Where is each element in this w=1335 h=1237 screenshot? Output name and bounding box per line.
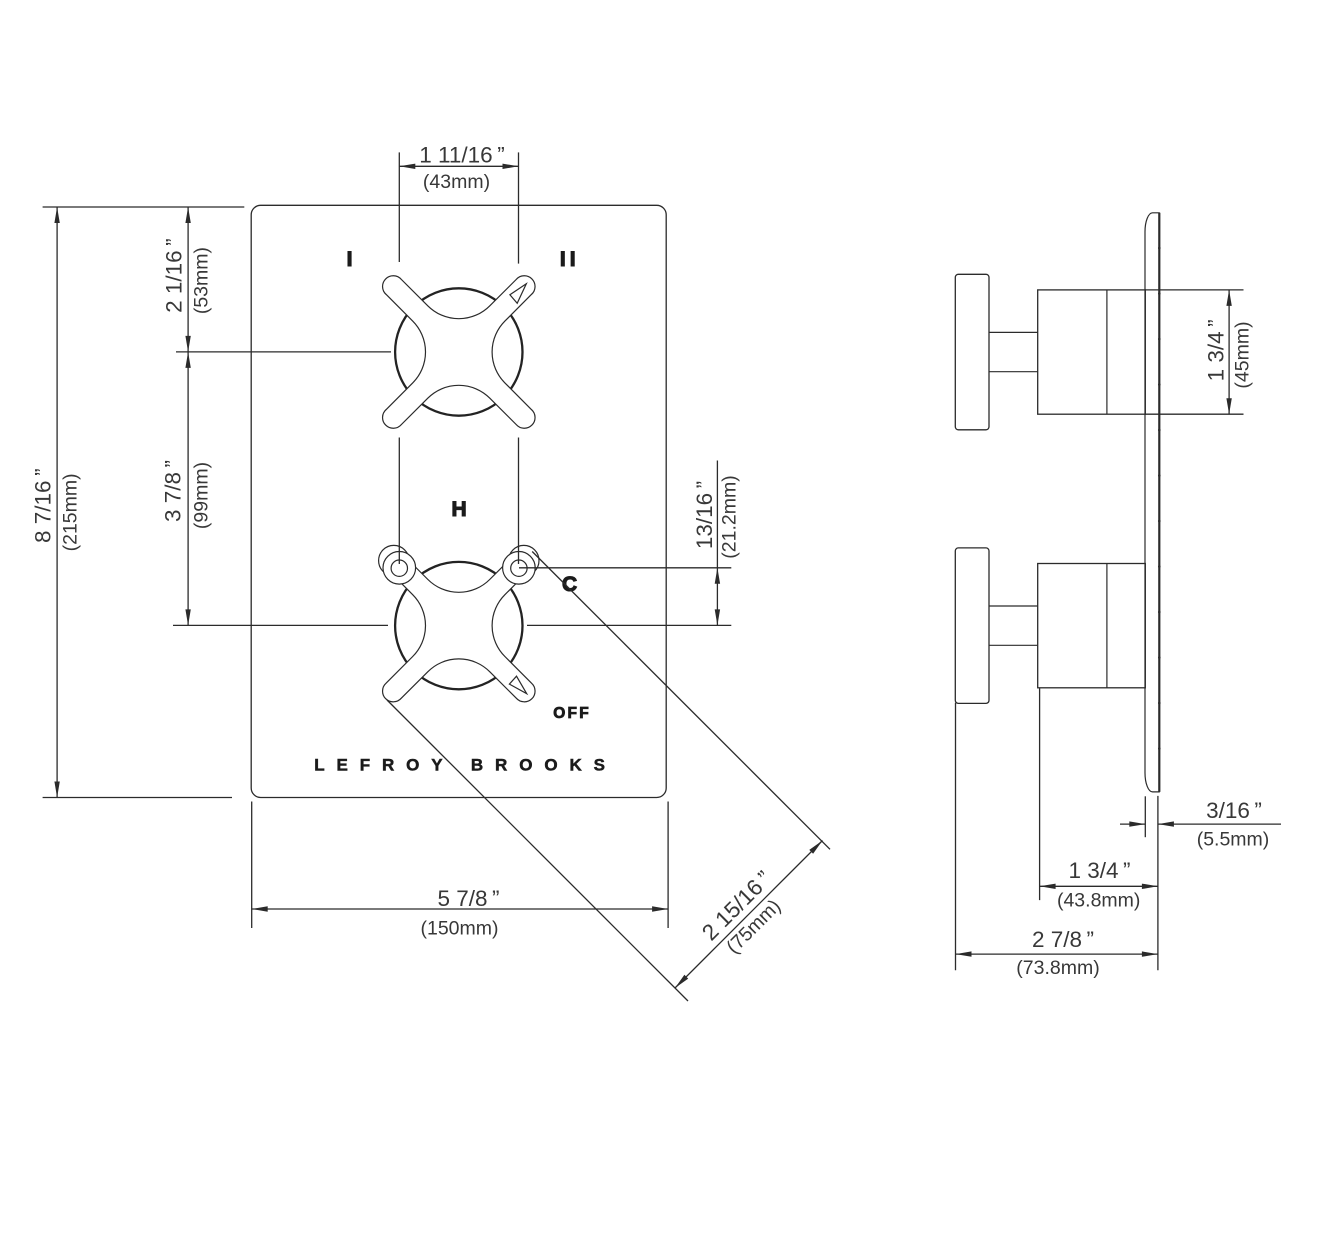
lower handle index button right (C) — [503, 552, 536, 585]
lower handle cross — [383, 549, 535, 701]
lower handle pointer triangle — [509, 676, 526, 694]
svg-text:(45mm): (45mm) — [1232, 321, 1254, 388]
svg-text:2 1/16 ”: 2 1/16 ” — [162, 238, 187, 313]
svg-text:(215mm): (215mm) — [60, 473, 82, 551]
svg-text:(5.5mm): (5.5mm) — [1197, 829, 1270, 851]
front plate — [251, 205, 666, 797]
side bottom extension lines — [955, 703, 957, 970]
svg-text:H: H — [452, 498, 467, 521]
lower handle index button left (H) — [383, 552, 416, 585]
svg-text:LEFROY BROOKS: LEFROY BROOKS — [314, 756, 617, 775]
side upper handle bar — [955, 274, 989, 430]
svg-text:(53mm): (53mm) — [190, 247, 212, 314]
dim 3 7/8 (99mm) — [187, 352, 189, 626]
top extension line (8 7/16 & 2 1/16) — [43, 206, 245, 208]
svg-text:(150mm): (150mm) — [420, 918, 498, 940]
svg-text:(73.8mm): (73.8mm) — [1016, 957, 1099, 979]
upper handle collar circle — [395, 288, 522, 415]
dim 2 1/16 (53mm) — [187, 207, 189, 352]
dim 1 3/4 (43.8mm) — [1040, 885, 1158, 887]
side upper handle stem — [989, 331, 1038, 333]
svg-text:2 7/8 ”: 2 7/8 ” — [1032, 927, 1094, 952]
dim 1 3/4 (45mm) side top — [1145, 289, 1243, 291]
side plate profile — [1145, 213, 1160, 792]
dim 8 7/16 (215mm) left vertical — [56, 207, 58, 798]
svg-text:1 3/4 ”: 1 3/4 ” — [1204, 319, 1229, 381]
svg-text:1 11/16 ”: 1 11/16 ” — [419, 142, 504, 167]
svg-text:II: II — [560, 248, 580, 271]
vertical centrelines between handles — [398, 438, 400, 565]
bottom extension line (8 7/16) — [43, 797, 232, 799]
dim 13/16 (21.2mm) — [519, 567, 731, 569]
svg-text:(43mm): (43mm) — [423, 171, 490, 193]
extension line lower handle centre left — [173, 624, 388, 626]
lower handle arm cap circle right — [509, 545, 539, 575]
svg-text:3/16 ”: 3/16 ” — [1206, 798, 1262, 823]
svg-text:(21.2mm): (21.2mm) — [719, 475, 741, 558]
svg-text:13/16 ”: 13/16 ” — [692, 481, 717, 549]
lower handle collar circle — [395, 562, 522, 689]
svg-text:5 7/8 ”: 5 7/8 ” — [437, 886, 499, 911]
dim 1 11/16 (43mm) top — [398, 152, 400, 262]
svg-text:1 3/4 ”: 1 3/4 ” — [1068, 858, 1130, 883]
side plate wall face (thick) — [1158, 213, 1160, 792]
upper handle cross — [383, 276, 535, 428]
dim 2 7/8 (73.8mm) — [956, 953, 1158, 955]
upper handle pointer triangle — [510, 284, 526, 304]
dim 3/16 (5.5mm) — [1120, 823, 1145, 825]
wall face tick dots — [1158, 247, 1161, 250]
svg-text:(99mm): (99mm) — [191, 462, 213, 529]
dim 5 7/8 (150mm) bottom — [251, 802, 253, 929]
side lower handle stem — [989, 605, 1038, 607]
diagonal dim 2 15/16 (75mm) — [532, 552, 830, 850]
svg-text:8 7/16 ”: 8 7/16 ” — [30, 468, 55, 543]
side lower handle bar — [955, 548, 989, 704]
svg-text:OFF: OFF — [553, 705, 591, 722]
svg-text:(43.8mm): (43.8mm) — [1057, 890, 1140, 912]
side lower handle body — [1038, 564, 1146, 688]
svg-text:3 7/8 ”: 3 7/8 ” — [161, 460, 186, 522]
lower handle arm cap circle left — [379, 545, 409, 575]
mid extension line at upper handle centre — [176, 351, 391, 353]
svg-text:I: I — [347, 248, 353, 271]
side upper handle body — [1038, 290, 1146, 414]
